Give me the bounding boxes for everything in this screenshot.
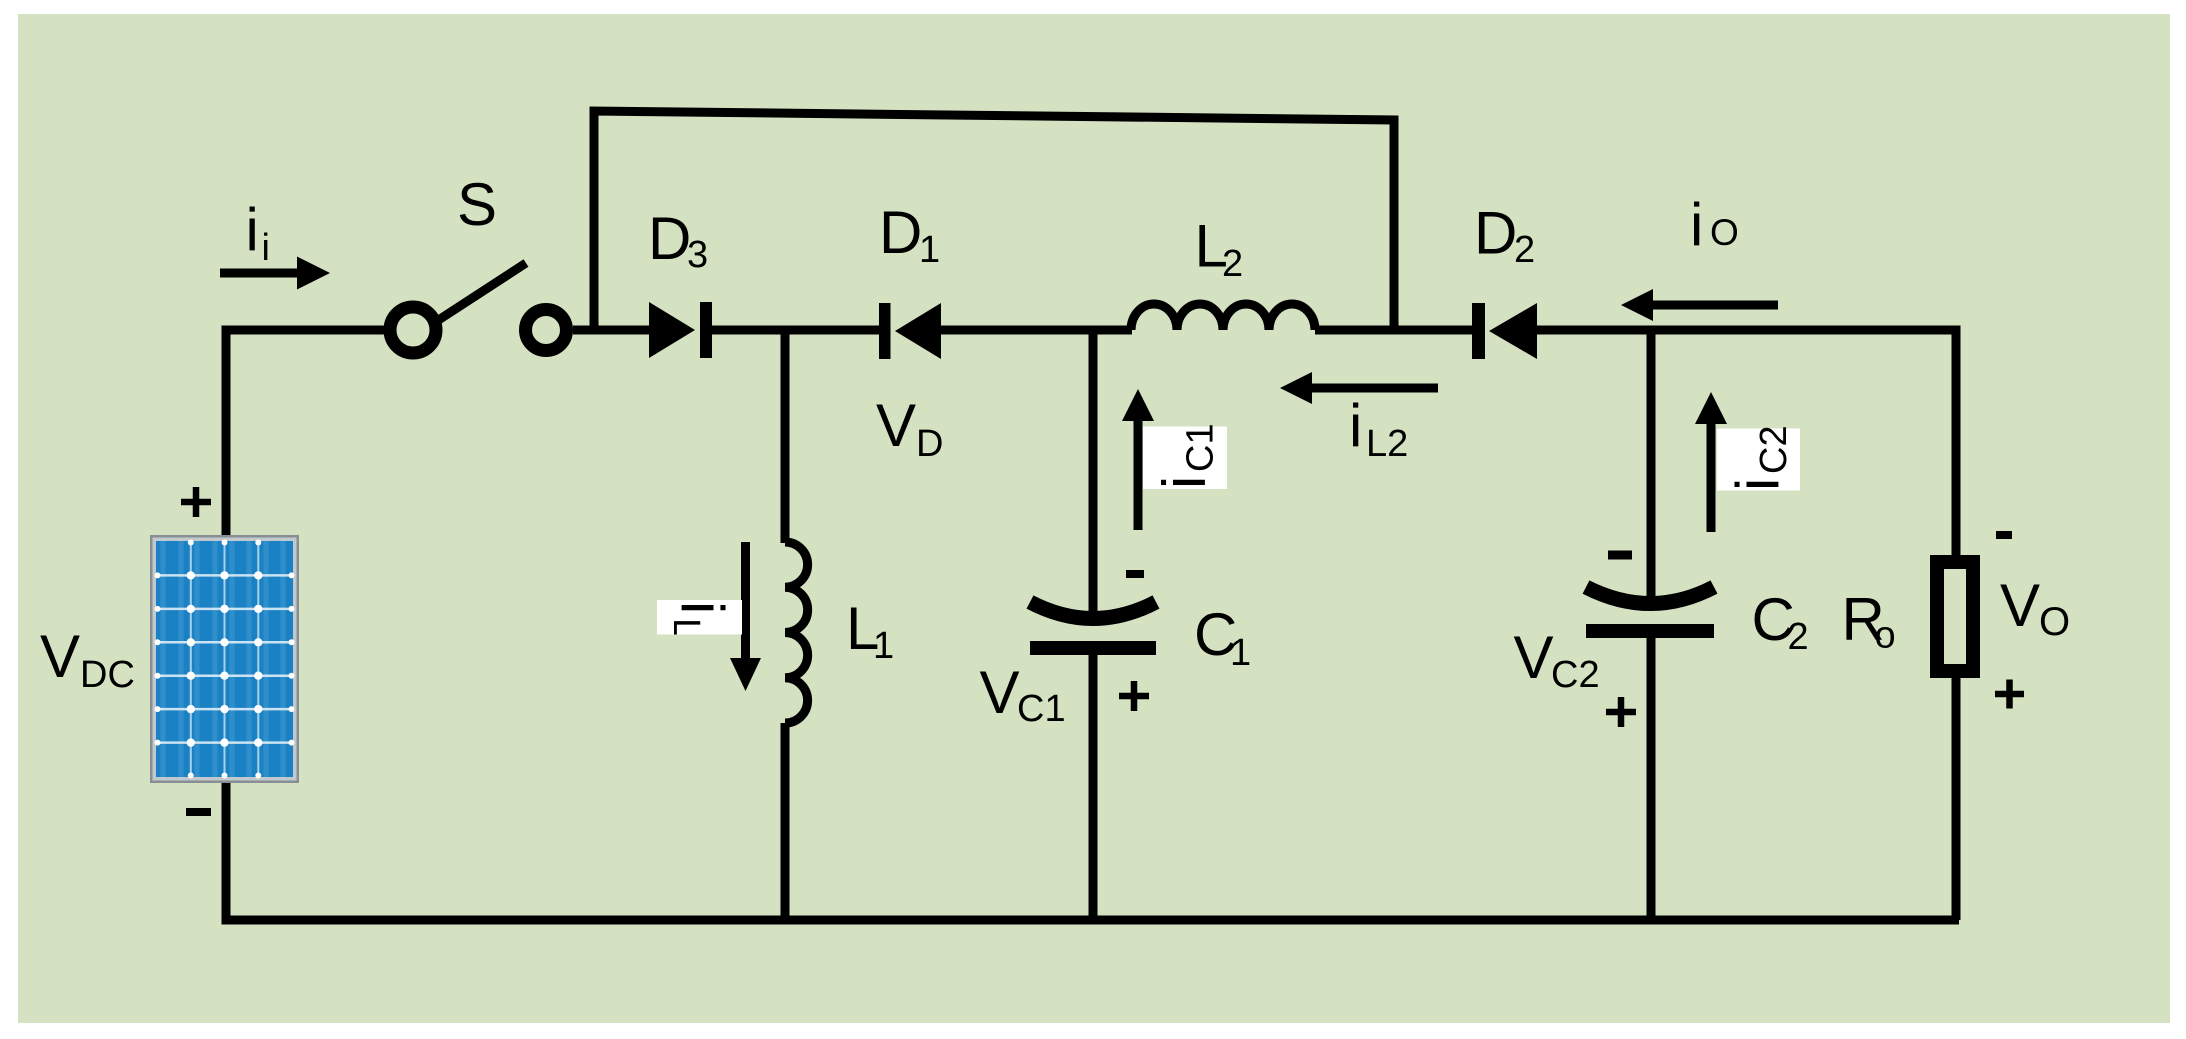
wire: D2 to right branch (junction with C2): [1537, 330, 1956, 556]
wire: C2 branch upper: [1647, 330, 1656, 604]
diode D2: [1472, 303, 1537, 359]
capacitor C1 straight plate: [1030, 641, 1156, 655]
svg-text:O: O: [2039, 600, 2070, 644]
svg-text:2: 2: [1514, 229, 1535, 271]
switch S pole circle: [390, 307, 436, 353]
solar panel source VDC: [150, 535, 299, 783]
arrow iC2 (up): [1695, 392, 1727, 532]
label L1: [846, 595, 894, 667]
wire: D3 to D1: [712, 326, 880, 335]
plus sign at VO: [1995, 680, 2024, 709]
svg-text:V: V: [40, 623, 80, 690]
label C1: [1194, 601, 1251, 674]
plus sign at C1: [1119, 681, 1149, 711]
svg-text:D: D: [1474, 200, 1517, 267]
svg-text:C2: C2: [1551, 654, 1600, 696]
svg-text:2: 2: [1222, 243, 1243, 285]
svg-text:2: 2: [1788, 616, 1809, 658]
svg-text:V: V: [876, 392, 916, 459]
svg-text:D: D: [648, 205, 691, 272]
arrow iL1 (down): [730, 542, 761, 691]
svg-text:V: V: [2000, 572, 2040, 639]
capacitor C1 curved plate: [1030, 602, 1156, 619]
label VD: [876, 392, 943, 465]
wire: L1 branch lower: [781, 723, 790, 920]
capacitor C2 curved plate: [1586, 587, 1714, 604]
plus sign at VDC: [181, 487, 211, 517]
label VO: [2000, 572, 2070, 644]
diode D3: [649, 302, 712, 358]
svg-text:O: O: [1710, 212, 1739, 253]
switch S throw circle: [526, 310, 567, 351]
arrow iL2 (left): [1280, 372, 1438, 404]
minus sign at VDC: [186, 808, 211, 816]
wire: right branch lower: [1952, 676, 1961, 920]
plus sign at C2: [1606, 697, 1636, 727]
svg-text:1: 1: [873, 625, 894, 667]
svg-text:1: 1: [919, 229, 940, 271]
arrow iO (left): [1621, 289, 1778, 321]
wire: left branch top (source + to switch): [226, 330, 384, 535]
svg-text:i: i: [1690, 191, 1703, 258]
svg-text:1: 1: [1230, 632, 1251, 674]
arrow iC1 (up): [1122, 389, 1154, 530]
label D2: [1474, 200, 1535, 272]
diode D1: [879, 303, 941, 359]
label VDC: [40, 623, 135, 696]
label L2: [1195, 213, 1244, 286]
wire: C1 branch upper: [1089, 330, 1098, 616]
svg-text:C1: C1: [1180, 423, 1222, 472]
switch S blade: [437, 263, 526, 321]
wire: D1 to L2 (junction with C1 branch): [941, 326, 1132, 335]
label iL1 (rotated, white box): [657, 600, 742, 660]
label iL2: [1349, 392, 1408, 465]
label VC2: [1514, 624, 1600, 696]
inductor L1: [785, 542, 808, 723]
label iC2 (rotated, white box): [1717, 425, 1800, 491]
svg-text:i: i: [669, 601, 736, 614]
minus sign at VO: [1996, 531, 2012, 539]
wire: left branch bottom + bottom rail: [226, 783, 1959, 920]
label C2: [1752, 586, 1809, 658]
svg-text:o: o: [1875, 615, 1896, 657]
label Ro: [1842, 586, 1896, 657]
svg-text:i: i: [1151, 476, 1218, 489]
svg-text:C2: C2: [1753, 425, 1795, 474]
svg-text:S: S: [457, 171, 497, 238]
wire: L2 to D2 (junction with loop leg): [1315, 326, 1473, 335]
wire: upper feedback loop: [594, 111, 1394, 330]
svg-text:i: i: [1349, 392, 1362, 459]
minus sign at C2: [1608, 551, 1632, 560]
label ii (input current): [246, 196, 270, 269]
svg-text:D: D: [916, 423, 943, 465]
label iO: [1690, 191, 1739, 258]
inductor L2: [1131, 304, 1315, 330]
label D1: [879, 199, 940, 271]
svg-text:i: i: [1724, 478, 1791, 491]
wire: C2 branch lower: [1647, 638, 1656, 920]
svg-text:V: V: [980, 659, 1020, 726]
label iC1 (rotated, white box): [1143, 423, 1227, 489]
svg-text:V: V: [1514, 624, 1554, 691]
svg-text:i: i: [246, 196, 259, 263]
svg-text:DC: DC: [80, 654, 135, 696]
arrow ii: [220, 257, 330, 290]
capacitor C2 straight plate: [1586, 624, 1714, 638]
svg-text:i: i: [262, 227, 270, 269]
wire: C1 branch lower: [1089, 655, 1098, 920]
svg-text:3: 3: [687, 234, 708, 276]
svg-text:L2: L2: [1366, 423, 1408, 465]
wire: switch to D3: [573, 326, 650, 335]
label D3: [648, 205, 708, 276]
svg-text:D: D: [879, 199, 922, 266]
minus sign at C1: [1126, 570, 1144, 578]
wire: L1 branch upper: [781, 330, 790, 543]
svg-text:C1: C1: [1017, 688, 1066, 730]
resistor Ro body: [1937, 562, 1973, 671]
label VC1: [980, 659, 1066, 730]
